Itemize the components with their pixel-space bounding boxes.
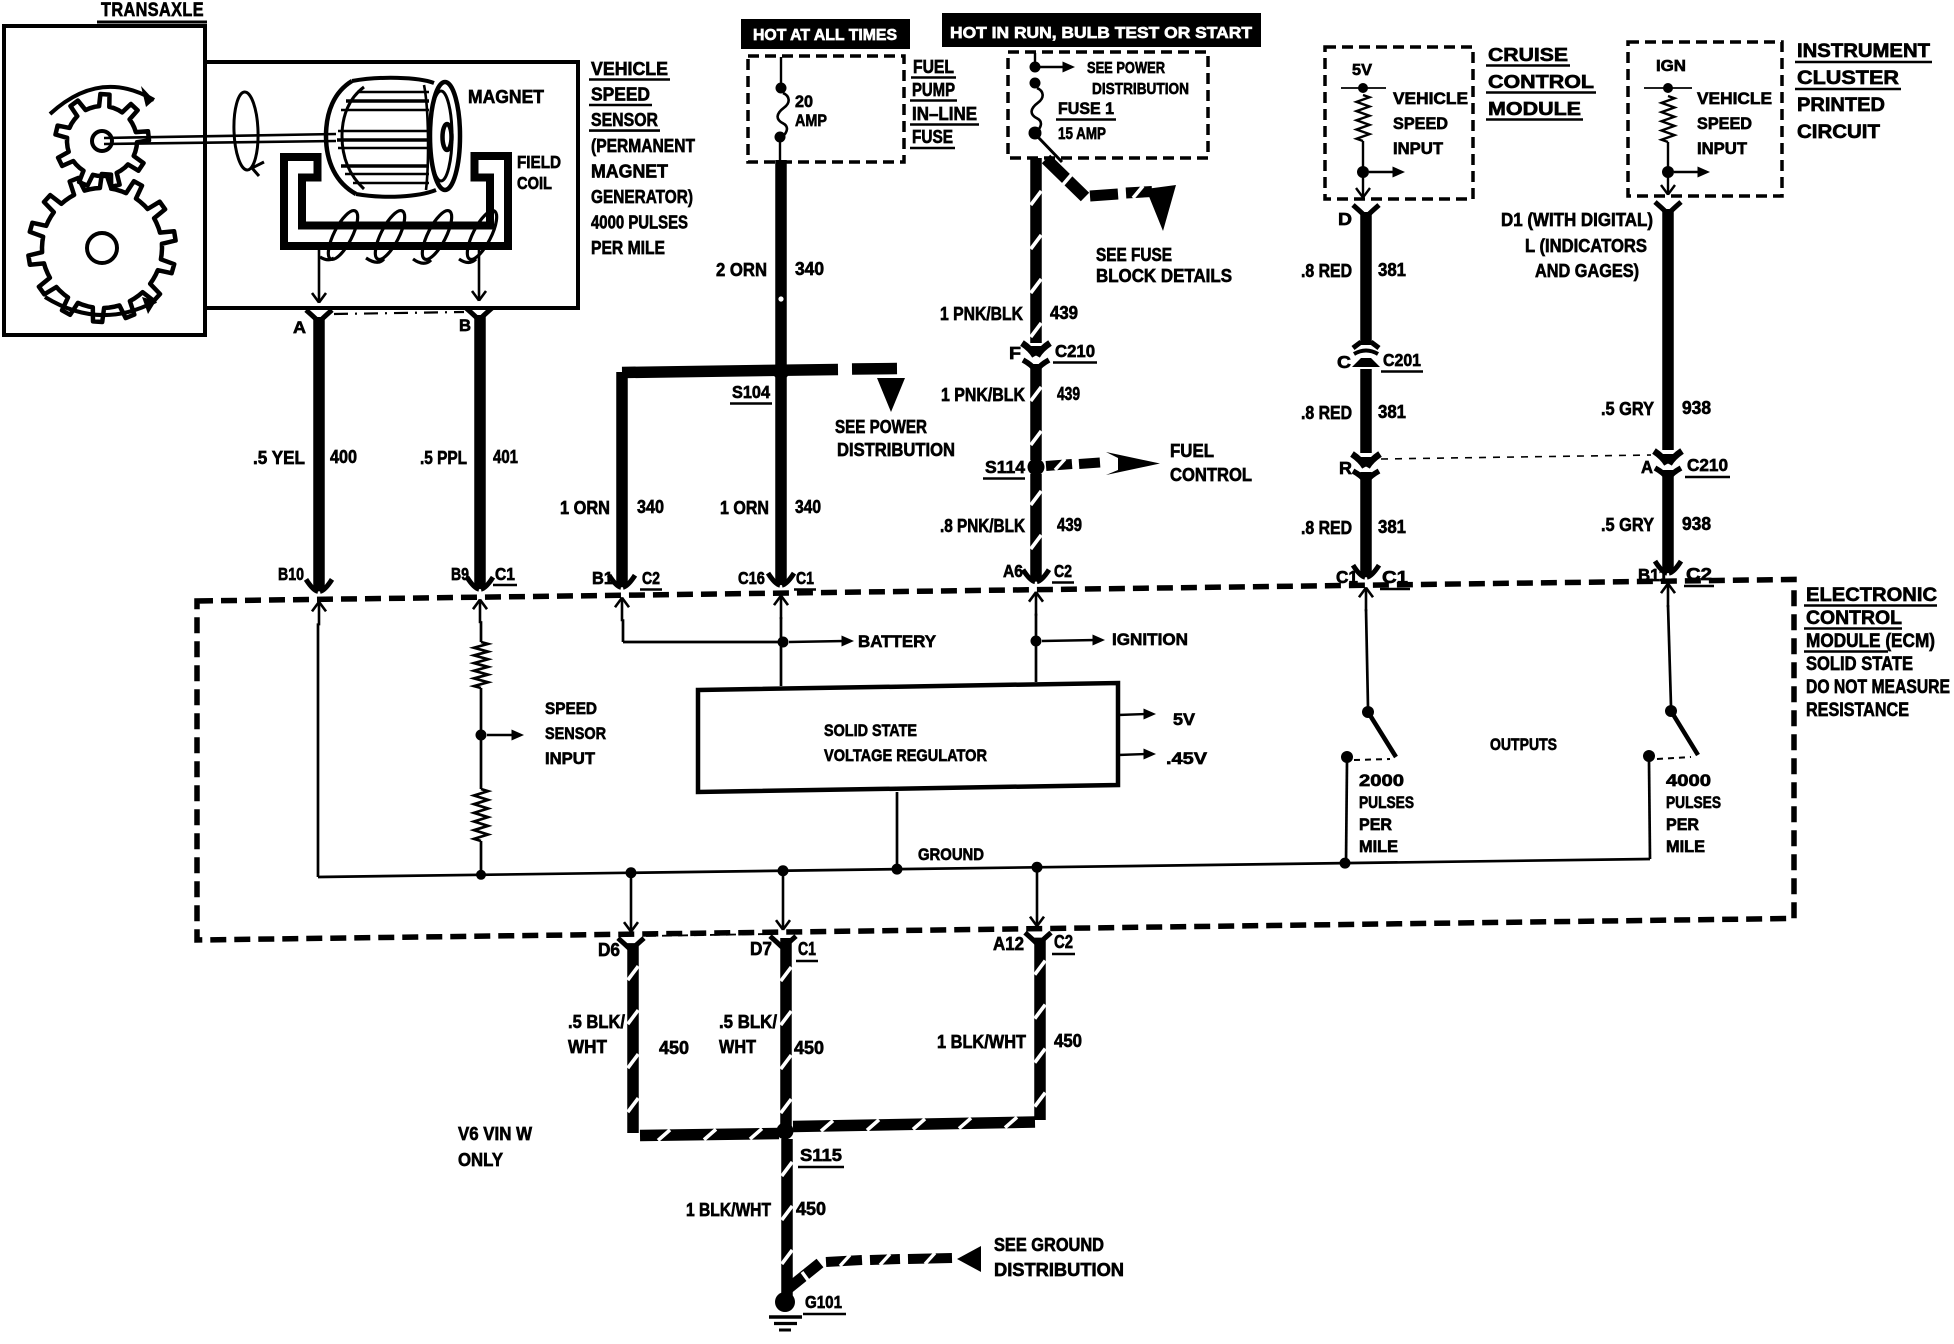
svg-text:381: 381 [1378, 517, 1406, 537]
svg-text:SENSOR: SENSOR [545, 725, 606, 743]
svg-text:SEE GROUND: SEE GROUND [994, 1235, 1104, 1255]
wire B purple 401 [474, 315, 486, 589]
svg-text:4000: 4000 [1666, 772, 1711, 790]
svg-text:S114: S114 [985, 457, 1025, 477]
solid state voltage regulator [698, 683, 1118, 792]
svg-text:FUSE: FUSE [912, 127, 953, 147]
svg-text:SENSOR: SENSOR [591, 109, 658, 130]
svg-text:TRANSAXLE: TRANSAXLE [101, 0, 204, 21]
svg-text:A12: A12 [993, 934, 1024, 954]
svg-text:A6: A6 [1003, 561, 1023, 581]
svg-text:.8 PNK/BLK: .8 PNK/BLK [940, 516, 1025, 536]
svg-text:439: 439 [1057, 515, 1082, 535]
svg-text:MAGNET: MAGNET [591, 160, 669, 181]
wire .8 RED 381 lower [1360, 472, 1372, 577]
svg-text:450: 450 [1054, 1031, 1082, 1051]
svg-text:381: 381 [1378, 260, 1406, 280]
wire .8 RED 381 middle [1360, 369, 1372, 453]
svg-text:C2: C2 [1054, 561, 1072, 581]
svg-text:.8 RED: .8 RED [1301, 261, 1352, 281]
svg-text:PER: PER [1666, 816, 1699, 834]
svg-text:C2: C2 [642, 568, 660, 588]
svg-text:D1 (WITH DIGITAL): D1 (WITH DIGITAL) [1501, 210, 1653, 230]
large gear [28, 174, 175, 322]
svg-text:1 BLK/WHT: 1 BLK/WHT [686, 1200, 771, 1220]
svg-text:S115: S115 [800, 1145, 842, 1165]
wire 1 PNK/BLK 439 middle [1030, 364, 1042, 460]
svg-text:439: 439 [1057, 384, 1080, 404]
svg-text:VEHICLE: VEHICLE [1393, 90, 1468, 108]
svg-text:PRINTED: PRINTED [1797, 95, 1885, 116]
connector C210 pin R [1352, 454, 1380, 467]
svg-text:C1: C1 [798, 939, 816, 959]
svg-text:C210: C210 [1687, 455, 1728, 475]
svg-text:AMP: AMP [795, 111, 827, 130]
svg-text:1 ORN: 1 ORN [720, 498, 769, 518]
svg-text:B10: B10 [278, 564, 304, 584]
svg-text:FUEL: FUEL [913, 57, 954, 77]
svg-text:C201: C201 [1383, 350, 1421, 370]
connector dash line A-B [334, 312, 464, 314]
svg-text:SEE POWER: SEE POWER [1087, 60, 1165, 77]
fuse 1 box [1008, 52, 1208, 158]
svg-text:CLUSTER: CLUSTER [1797, 68, 1899, 89]
svg-text:D6: D6 [598, 940, 620, 960]
svg-text:C16: C16 [738, 568, 765, 588]
svg-text:.8 RED: .8 RED [1301, 403, 1352, 423]
rotation arrow bottom [45, 297, 156, 315]
see fuse block details arrow [1037, 136, 1062, 162]
svg-text:DISTRIBUTION: DISTRIBUTION [994, 1260, 1124, 1280]
svg-text:1 ORN: 1 ORN [560, 498, 610, 518]
cruise control module box [1325, 47, 1473, 199]
hot at all times header [741, 19, 910, 49]
svg-text:(PERMANENT: (PERMANENT [591, 135, 696, 156]
splice S115 [777, 1123, 794, 1140]
connector C201 pin C [1353, 342, 1379, 348]
svg-text:INPUT: INPUT [545, 750, 595, 768]
svg-text:CRUISE: CRUISE [1488, 45, 1568, 65]
wire 1 PNK/BLK 439 upper [1030, 158, 1042, 343]
svg-text:A: A [1641, 457, 1653, 477]
svg-text:R: R [1339, 458, 1352, 478]
svg-text:SEE POWER: SEE POWER [835, 417, 927, 437]
svg-text:RESISTANCE: RESISTANCE [1806, 700, 1909, 721]
small gear [56, 94, 150, 187]
svg-text:DO NOT MEASURE: DO NOT MEASURE [1806, 677, 1950, 698]
svg-text:340: 340 [795, 259, 824, 279]
svg-text:VEHICLE: VEHICLE [1697, 90, 1772, 108]
svg-text:.45V: .45V [1166, 749, 1208, 768]
svg-text:.5 GRY: .5 GRY [1601, 515, 1654, 535]
svg-text:OUTPUTS: OUTPUTS [1490, 735, 1557, 754]
svg-text:CIRCUIT: CIRCUIT [1797, 122, 1880, 143]
svg-text:SEE FUSE: SEE FUSE [1096, 245, 1172, 265]
regulator .45V output [1118, 754, 1147, 755]
svg-text:20: 20 [795, 92, 813, 111]
connector C210 dash link [1381, 455, 1651, 459]
svg-text:FIELD: FIELD [517, 152, 561, 172]
svg-text:B: B [459, 316, 471, 335]
ECM speed sensor input resistors [480, 621, 483, 642]
svg-text:SOLID STATE: SOLID STATE [824, 721, 917, 740]
connector C210 pin F [1022, 343, 1050, 356]
svg-text:GROUND: GROUND [918, 845, 984, 864]
svg-text:1 PNK/BLK: 1 PNK/BLK [941, 385, 1025, 405]
wire .8 RED 381 upper [1360, 212, 1372, 345]
svg-text:15 AMP: 15 AMP [1058, 125, 1106, 143]
field coil yoke [284, 156, 508, 246]
svg-text:IGN: IGN [1656, 58, 1686, 75]
regulator ground [896, 792, 899, 869]
ECM ground exits [630, 873, 633, 932]
svg-text:401: 401 [493, 447, 518, 467]
see power distribution arrow [852, 363, 897, 375]
svg-text:450: 450 [796, 1199, 826, 1219]
svg-text:SPEED: SPEED [591, 84, 650, 105]
svg-text:BLOCK DETAILS: BLOCK DETAILS [1096, 266, 1232, 286]
battery feed [622, 619, 625, 642]
see power distribution ref [1034, 53, 1036, 64]
connector dash line D6-D7 [646, 934, 768, 936]
ECM box [197, 579, 1794, 940]
svg-text:FUSE 1: FUSE 1 [1058, 99, 1114, 118]
fuse 1 15A [1030, 78, 1041, 89]
svg-text:450: 450 [794, 1038, 824, 1058]
svg-text:2 ORN: 2 ORN [716, 260, 767, 280]
wire .5 BLK/WHT 450 from D6 [627, 943, 639, 1133]
regulator 5V output [1118, 714, 1147, 715]
svg-text:1 PNK/BLK: 1 PNK/BLK [940, 304, 1023, 324]
svg-text:MAGNET: MAGNET [468, 87, 544, 107]
ECM internal ground wire from B10 [317, 623, 320, 877]
ECM pin D7 C1 [770, 936, 796, 947]
svg-text:INPUT: INPUT [1393, 140, 1443, 158]
svg-text:L (INDICATORS: L (INDICATORS [1525, 236, 1647, 256]
svg-text:450: 450 [659, 1038, 689, 1058]
svg-text:F: F [1009, 343, 1021, 363]
vehicle speed sensor box [205, 62, 578, 308]
fuel pump fuse box [748, 56, 904, 162]
svg-text:.8 RED: .8 RED [1301, 518, 1352, 538]
svg-text:MODULE: MODULE [1488, 99, 1581, 119]
wire .5 BLK/WHT 450 from D7 [780, 938, 792, 1127]
cruise input resistor [1357, 95, 1370, 141]
svg-text:FUEL: FUEL [1170, 441, 1214, 461]
svg-text:ONLY: ONLY [458, 1150, 503, 1170]
svg-text:CONTROL: CONTROL [1806, 608, 1902, 629]
svg-text:SPEED: SPEED [545, 700, 597, 718]
svg-text:.5 GRY: .5 GRY [1601, 399, 1654, 419]
svg-text:.5 YEL: .5 YEL [253, 448, 305, 468]
svg-text:400: 400 [330, 447, 357, 467]
instrument exit cup [1655, 202, 1681, 213]
rotation arrow top [50, 87, 154, 114]
svg-text:340: 340 [637, 497, 664, 517]
splice S114 fuel control arrow [1028, 459, 1045, 476]
ground G101 [775, 1292, 795, 1312]
svg-text:WHT: WHT [719, 1037, 756, 1057]
svg-text:938: 938 [1682, 398, 1711, 418]
ground bus junctions [626, 867, 637, 878]
magnet drum [352, 78, 434, 83]
svg-text:SOLID STATE: SOLID STATE [1806, 654, 1913, 675]
svg-text:DISTRIBUTION: DISTRIBUTION [837, 440, 955, 460]
wire A yellow 400 [313, 317, 325, 591]
svg-text:IN–LINE: IN–LINE [912, 104, 977, 124]
svg-text:SPEED: SPEED [1393, 115, 1448, 133]
svg-text:MILE: MILE [1666, 838, 1705, 856]
svg-text:.5 BLK/: .5 BLK/ [568, 1012, 625, 1032]
sensor shaft [104, 134, 336, 138]
svg-text:IGNITION: IGNITION [1112, 630, 1188, 649]
coil output arrows A B [318, 250, 321, 303]
svg-text:.5 BLK/: .5 BLK/ [719, 1012, 777, 1032]
svg-text:D: D [1338, 209, 1352, 229]
ignition feed [1035, 614, 1038, 682]
wire 1 ORN 340 middle [775, 378, 787, 585]
svg-text:D7: D7 [750, 939, 772, 959]
svg-text:PER: PER [1359, 816, 1392, 834]
field coil winding [323, 207, 364, 263]
instrument input resistor [1662, 96, 1675, 142]
connector C210 pin A [1654, 451, 1682, 464]
svg-text:439: 439 [1050, 303, 1078, 323]
svg-text:CONTROL: CONTROL [1488, 72, 1594, 92]
transaxle box [4, 26, 205, 335]
svg-text:C1: C1 [495, 564, 515, 584]
svg-text:C2: C2 [1054, 932, 1073, 952]
instrument cluster box [1628, 42, 1782, 196]
svg-text:VOLTAGE REGULATOR: VOLTAGE REGULATOR [824, 746, 987, 765]
svg-text:DISTRIBUTION: DISTRIBUTION [1092, 81, 1189, 98]
wire .5 GRY 938 upper [1662, 209, 1674, 450]
svg-text:V6 VIN W: V6 VIN W [458, 1124, 532, 1144]
hot in run header [942, 13, 1261, 47]
svg-text:G101: G101 [805, 1292, 842, 1312]
wire 1 BLK/WHT 450 to ground [781, 1139, 793, 1297]
svg-text:HOT AT ALL TIMES: HOT AT ALL TIMES [753, 27, 897, 44]
svg-text:C1: C1 [796, 568, 814, 588]
svg-text:AND GAGES): AND GAGES) [1535, 261, 1639, 281]
svg-text:340: 340 [795, 497, 821, 517]
svg-text:MILE: MILE [1359, 838, 1398, 856]
4000 ppm switch [1668, 605, 1671, 706]
svg-text:PER MILE: PER MILE [591, 237, 665, 258]
svg-text:5V: 5V [1352, 62, 1372, 79]
svg-text:INPUT: INPUT [1697, 140, 1747, 158]
see ground distribution arrow [789, 1263, 820, 1288]
ground bus [318, 859, 1650, 877]
svg-text:4000 PULSES: 4000 PULSES [591, 212, 688, 233]
svg-text:2000: 2000 [1359, 772, 1404, 790]
svg-text:C: C [1337, 352, 1351, 372]
ECM pin A12 C2 [1025, 933, 1051, 944]
svg-text:PULSES: PULSES [1666, 794, 1721, 812]
svg-text:A: A [293, 318, 306, 337]
svg-text:PUMP: PUMP [912, 80, 955, 100]
svg-text:COIL: COIL [517, 173, 552, 193]
wire 1 BLK/WHT 450 from A12 [1034, 938, 1046, 1120]
wire 1 ORN 340 left branch [616, 372, 628, 587]
svg-text:.5 PPL: .5 PPL [420, 448, 467, 468]
wire .5 GRY 938 lower [1662, 470, 1674, 573]
svg-text:WHT: WHT [568, 1037, 607, 1057]
splice S104 [622, 370, 838, 373]
svg-text:MODULE (ECM): MODULE (ECM) [1806, 631, 1935, 652]
svg-text:B9: B9 [451, 564, 469, 584]
svg-text:938: 938 [1682, 514, 1711, 534]
svg-text:CONTROL: CONTROL [1170, 465, 1252, 485]
svg-text:381: 381 [1378, 402, 1406, 422]
svg-text:GENERATOR): GENERATOR) [591, 186, 693, 207]
wire 2 ORN 340 [775, 160, 787, 378]
shaft rotation ellipse [233, 92, 260, 171]
fuel pump fuse 20A [780, 57, 782, 84]
2000 ppm switch [1366, 609, 1368, 707]
wire .8 PNK/BLK 439 lower [1030, 474, 1042, 582]
svg-text:C210: C210 [1055, 341, 1095, 361]
svg-text:SPEED: SPEED [1697, 115, 1752, 133]
svg-text:HOT IN RUN, BULB TEST OR START: HOT IN RUN, BULB TEST OR START [950, 25, 1252, 42]
svg-text:1 BLK/WHT: 1 BLK/WHT [937, 1032, 1026, 1052]
ECM pin D6 [618, 938, 644, 949]
svg-text:5V: 5V [1173, 710, 1196, 729]
svg-text:S104: S104 [732, 382, 770, 402]
svg-text:INSTRUMENT: INSTRUMENT [1797, 41, 1930, 62]
svg-text:BATTERY: BATTERY [858, 632, 937, 651]
svg-text:VEHICLE: VEHICLE [591, 58, 668, 79]
svg-text:PULSES: PULSES [1359, 794, 1414, 812]
svg-text:ELECTRONIC: ELECTRONIC [1806, 585, 1937, 606]
